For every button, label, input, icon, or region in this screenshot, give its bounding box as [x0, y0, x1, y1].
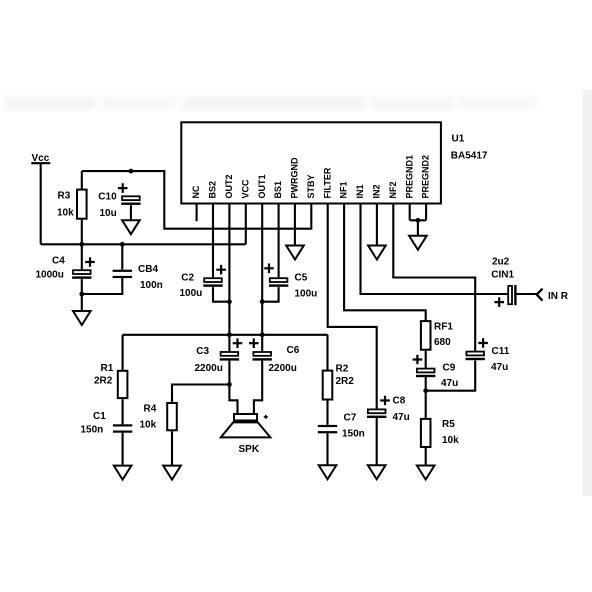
svg-text:47u: 47u: [491, 362, 508, 373]
value 2u2 of CIN1: [492, 257, 510, 268]
svg-text:R1: R1: [101, 363, 114, 374]
svg-text:2200u: 2200u: [195, 363, 223, 374]
label R1: [101, 363, 114, 374]
svg-text:FILTER: FILTER: [322, 167, 332, 198]
wire rail to C4 top: [81, 244, 83, 269]
junction OUT2/zobel line: [227, 332, 232, 337]
svg-text:R4: R4: [144, 404, 157, 415]
ground under PWRGND: [286, 246, 304, 260]
wire R1 to C1: [122, 399, 124, 424]
label C1: [93, 411, 106, 422]
svg-text:C1: C1: [93, 411, 106, 422]
label CB4: [138, 264, 158, 275]
value 2R2 of R1: [94, 375, 113, 386]
label RF1: [434, 322, 453, 333]
svg-text:C6: C6: [287, 345, 300, 356]
ground under PREGND: [409, 236, 427, 250]
value 47u of C8: [393, 412, 410, 423]
svg-text:BS1: BS1: [273, 181, 283, 199]
svg-text:PREGND1: PREGND1: [404, 155, 414, 199]
svg-text:C3: C3: [196, 346, 209, 357]
wire Vcc rail to VCC pin: [41, 204, 246, 245]
ground under IN2: [368, 246, 386, 260]
plus sign CIN1: [494, 297, 504, 307]
svg-text:10k: 10k: [140, 420, 157, 431]
wire C9 to R5: [425, 377, 427, 419]
wire CB4 bottom to node: [82, 278, 123, 294]
plus sign C6: [249, 338, 259, 348]
wire tap to R4: [172, 385, 229, 404]
svg-text:U1: U1: [452, 134, 465, 145]
label C6: [287, 345, 300, 356]
wire C6 bottom to speaker right: [254, 361, 262, 414]
ground under R4: [163, 466, 181, 480]
svg-text:47u: 47u: [441, 378, 458, 389]
svg-text:C10: C10: [98, 191, 117, 202]
junction C9/C11/R5: [423, 388, 428, 393]
svg-text:NF1: NF1: [339, 181, 349, 198]
svg-text:2200u: 2200u: [269, 363, 297, 374]
svg-text:OUT1: OUT1: [257, 174, 267, 198]
wire C10 bottom to ground: [130, 205, 132, 219]
svg-text:NF2: NF2: [388, 181, 398, 198]
svg-text:C5: C5: [295, 272, 308, 283]
wire PWRGND pin to ground: [294, 204, 296, 246]
value 2R2 of R2: [336, 376, 355, 387]
value 10u of C10: [100, 208, 117, 219]
label BA5417: [451, 151, 488, 162]
speaker SPK body: [221, 414, 271, 437]
wire R3 bottom to rail: [81, 220, 83, 245]
svg-text:150n: 150n: [342, 429, 365, 440]
svg-text:C4: C4: [52, 255, 65, 266]
junction PREGND tie: [416, 218, 421, 223]
wire NF1 pin to RF1: [344, 204, 426, 322]
svg-text:1000u: 1000u: [36, 269, 64, 280]
wire zobel rail R1 to R2: [123, 335, 328, 371]
plus sign C5: [264, 264, 274, 274]
svg-text:BS2: BS2: [208, 181, 218, 199]
wire NF2 pin to C11 top: [393, 204, 475, 352]
value 100u of C2: [180, 288, 203, 299]
ground under R5: [417, 466, 435, 480]
capacitor C2: [203, 278, 222, 287]
capacitor C9: [416, 369, 435, 378]
value 2200u of C3: [195, 363, 223, 374]
wire C4 bottom to node: [81, 279, 83, 294]
ground under C10: [122, 220, 140, 234]
wire R5 to ground: [425, 448, 427, 465]
resistor R3: [77, 190, 87, 219]
junction C5/OUT1: [260, 299, 265, 304]
svg-text:2u2: 2u2: [492, 257, 510, 268]
ground under C8: [368, 465, 386, 479]
svg-text:NC: NC: [191, 185, 201, 198]
plus sign C3: [233, 338, 243, 348]
wire Vcc symbol down to rail: [40, 163, 42, 244]
op-amp IC U1 BA5417 body: [181, 122, 441, 203]
junction rail/CB4: [120, 242, 125, 247]
wire OUT1 pin down to C6: [261, 204, 263, 353]
label Vcc: [32, 153, 50, 164]
svg-text:IN R: IN R: [548, 291, 569, 302]
wire OUT2 pin down to C3: [228, 204, 230, 353]
junction OUT1/zobel line: [260, 332, 265, 337]
svg-text:2R2: 2R2: [336, 376, 355, 387]
value 10k of R5: [442, 435, 459, 446]
capacitor C8: [367, 409, 386, 418]
plus sign C2: [216, 265, 226, 275]
resistor R2: [323, 371, 333, 400]
label C11: [492, 346, 510, 357]
capacitor C7: [318, 425, 337, 433]
svg-text:IN2: IN2: [372, 184, 382, 198]
value 150n of C7: [342, 429, 365, 440]
node label IN R: [548, 291, 569, 302]
junction C4/CB4 bottom: [79, 292, 84, 297]
right edge gray strip: [583, 90, 592, 496]
label SPK: [239, 444, 260, 455]
wire IN2 pin to ground: [376, 204, 378, 246]
svg-text:R5: R5: [442, 419, 455, 430]
wire STBY net: STBY pin down, left, up to R3/C10 node: [82, 171, 311, 229]
label C8: [393, 395, 406, 406]
value 47u of C9: [441, 378, 458, 389]
svg-text:C2: C2: [181, 272, 194, 283]
wire R4 to ground: [171, 431, 173, 465]
capacitor CIN1: [508, 285, 516, 305]
ground under C1: [114, 466, 132, 480]
label C10: [98, 191, 117, 202]
wire CIN1 to input connector: [516, 293, 537, 295]
label C7: [344, 413, 357, 424]
wire FILTER pin to C8: [328, 204, 377, 410]
capacitor C11: [466, 352, 485, 361]
ground under C4: [73, 311, 91, 325]
label C9: [443, 363, 456, 374]
wire IN1 pin to CIN1: [361, 204, 508, 295]
capacitor C3: [220, 352, 239, 361]
value 1000u of C4: [36, 269, 64, 280]
svg-text:100n: 100n: [140, 280, 163, 291]
capacitor C5: [269, 278, 288, 287]
svg-text:C11: C11: [492, 346, 510, 357]
svg-text:PREGND2: PREGND2: [421, 155, 431, 199]
svg-text:C9: C9: [443, 363, 456, 374]
svg-text:680: 680: [434, 337, 451, 348]
value 2200u of C6: [269, 363, 297, 374]
svg-text:R3: R3: [58, 191, 71, 202]
value 10k of R4: [140, 420, 157, 431]
wire BS2 pin to C2: [212, 204, 214, 278]
label R4: [144, 404, 157, 415]
plus sign C4: [85, 257, 95, 267]
svg-text:RF1: RF1: [434, 322, 453, 333]
wire C11 bottom to junction: [426, 361, 476, 391]
value 100n of CB4: [140, 280, 163, 291]
wire PREGND tie to ground: [417, 220, 419, 235]
Vcc supply symbol bar: [31, 162, 50, 164]
svg-text:2R2: 2R2: [94, 375, 113, 386]
junction C2/OUT2: [227, 299, 232, 304]
wire C5 bottom to OUT1 line: [262, 287, 278, 302]
resistor R5: [421, 419, 431, 447]
plus sign C8: [380, 396, 390, 406]
capacitor C1: [113, 424, 132, 432]
wire R3 top to node: [81, 171, 83, 190]
svg-text:BA5417: BA5417: [451, 151, 488, 162]
junction rail/R3/C4: [79, 242, 84, 247]
svg-text:VCC: VCC: [240, 179, 250, 199]
svg-text:100u: 100u: [180, 288, 203, 299]
label R3: [58, 191, 71, 202]
wire C3 bottom to speaker left: [229, 361, 237, 414]
resistor RF1: [421, 321, 431, 350]
input connector chevron: [537, 289, 543, 301]
label C2: [181, 272, 194, 283]
svg-text:R2: R2: [336, 363, 349, 374]
IC U1 pin name labels: [191, 155, 431, 199]
label C4: [52, 255, 65, 266]
value 680 of RF1: [434, 337, 451, 348]
wire node to ground: [81, 294, 83, 310]
svg-text:10k: 10k: [442, 435, 459, 446]
plus sign SPK: [264, 415, 268, 419]
capacitor C6: [253, 352, 272, 361]
resistor R4: [167, 403, 177, 430]
plus sign C11: [478, 338, 488, 348]
value 47u of C11: [491, 362, 508, 373]
value 100u of C5: [295, 289, 318, 300]
svg-text:10k: 10k: [57, 208, 74, 219]
svg-text:47u: 47u: [393, 412, 410, 423]
wire C1 to ground: [122, 433, 124, 466]
capacitor C4: [72, 270, 91, 279]
ground under C7: [319, 465, 337, 479]
label U1: [452, 134, 465, 145]
svg-text:SPK: SPK: [239, 444, 260, 455]
wire BS1 pin to C5: [278, 204, 280, 278]
plus sign C10: [118, 183, 128, 193]
svg-text:OUT2: OUT2: [224, 174, 234, 198]
plus sign C9: [413, 355, 423, 365]
svg-text:STBY: STBY: [306, 174, 316, 198]
svg-text:IN1: IN1: [355, 184, 365, 198]
wire RF1 to C9: [425, 351, 427, 369]
label CIN1: [491, 269, 514, 280]
svg-text:CB4: CB4: [138, 264, 158, 275]
svg-text:C7: C7: [344, 413, 357, 424]
capacitor C10: [121, 196, 140, 205]
svg-text:100u: 100u: [295, 289, 318, 300]
wire R2 to C7: [326, 401, 328, 425]
label R5: [442, 419, 455, 430]
svg-text:C8: C8: [393, 395, 406, 406]
label R2: [336, 363, 349, 374]
svg-text:CIN1: CIN1: [491, 269, 514, 280]
label C3: [196, 346, 209, 357]
junction node C10 top: [129, 169, 134, 174]
wire C7 to ground: [326, 433, 328, 465]
junction C3/R4 tap: [227, 382, 232, 387]
pin 1 NC stub: [196, 204, 198, 222]
resistor R1: [118, 371, 128, 398]
capacitor CB4: [113, 270, 132, 278]
wire rail to CB4 top: [121, 244, 123, 269]
value 150n of C1: [81, 425, 104, 436]
wire PREGND1+PREGND2 tie: [410, 204, 426, 221]
svg-text:10u: 10u: [100, 208, 117, 219]
svg-text:150n: 150n: [81, 425, 104, 436]
svg-text:PWRGND: PWRGND: [290, 157, 300, 198]
wire C8 to ground: [376, 418, 378, 465]
value 10k of R3: [57, 208, 74, 219]
wire C2 bottom to OUT2 line: [213, 287, 229, 302]
label C5: [295, 272, 308, 283]
